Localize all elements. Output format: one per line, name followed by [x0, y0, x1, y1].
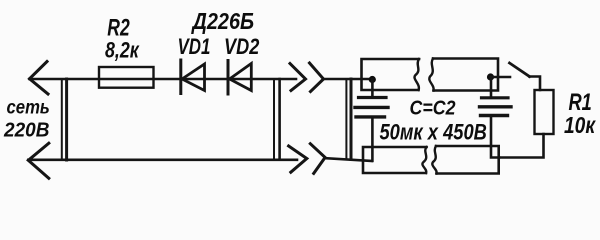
resistor R1 — [535, 90, 554, 134]
plug pin arrow (top wire) — [290, 64, 306, 91]
resistor R2 — [99, 67, 154, 88]
connector bars (after diodes) — [273, 79, 275, 160]
connector bars X1 (left pair) — [61, 79, 63, 160]
wire from R1 bottom to lamp box4 — [499, 134, 544, 158]
diode VD2 — [227, 61, 230, 95]
capacitor C2 (right): lead and plates — [490, 77, 493, 96]
socket fork (bottom wire) — [310, 144, 325, 174]
arrow (mains bottom lead, pointing left) — [28, 143, 49, 178]
svg-text:сеmь: сеmь — [7, 97, 50, 118]
plug pin arrow (bottom wire) — [289, 146, 307, 172]
switch contact (open) — [491, 76, 511, 79]
svg-text:VD2: VD2 — [224, 35, 259, 59]
node dot (top left of cap bank) — [369, 76, 376, 83]
lamp box bottom-left (box3) with break — [363, 147, 427, 173]
svg-text:10к: 10к — [564, 113, 596, 138]
svg-text:Д226Б: Д226Б — [191, 8, 254, 34]
svg-text:VD1: VD1 — [178, 35, 211, 60]
bottom wire (left segment) — [28, 159, 297, 162]
socket fork (top wire) — [310, 63, 324, 92]
bottom wire (right of socket into lamp box3) — [325, 158, 372, 161]
arrow (mains top lead, pointing left) — [30, 62, 49, 95]
top wire (right of socket into lamp box) — [324, 78, 373, 81]
top wire (left segment: arrow tip to plug pin) — [30, 78, 297, 81]
capacitor C1 (left): lead and plates — [371, 80, 374, 96]
diode VD1 — [179, 60, 182, 94]
svg-text:8,2к: 8,2к — [105, 39, 140, 63]
lamp box bottom-right (box4) with break — [436, 146, 499, 174]
lamp box top-left (box1) with break — [362, 59, 420, 90]
lamp box top-right (box2) with break — [433, 59, 498, 91]
svg-text:220В: 220В — [3, 119, 49, 142]
svg-text:С=С2: С=С2 — [410, 98, 456, 120]
svg-text:R2: R2 — [107, 15, 130, 41]
node dot (top right of cap bank) — [487, 73, 494, 80]
connector bars (right pair) — [345, 79, 347, 160]
svg-text:R1: R1 — [569, 89, 592, 116]
svg-text:50мк х 450В: 50мк х 450В — [380, 121, 487, 145]
